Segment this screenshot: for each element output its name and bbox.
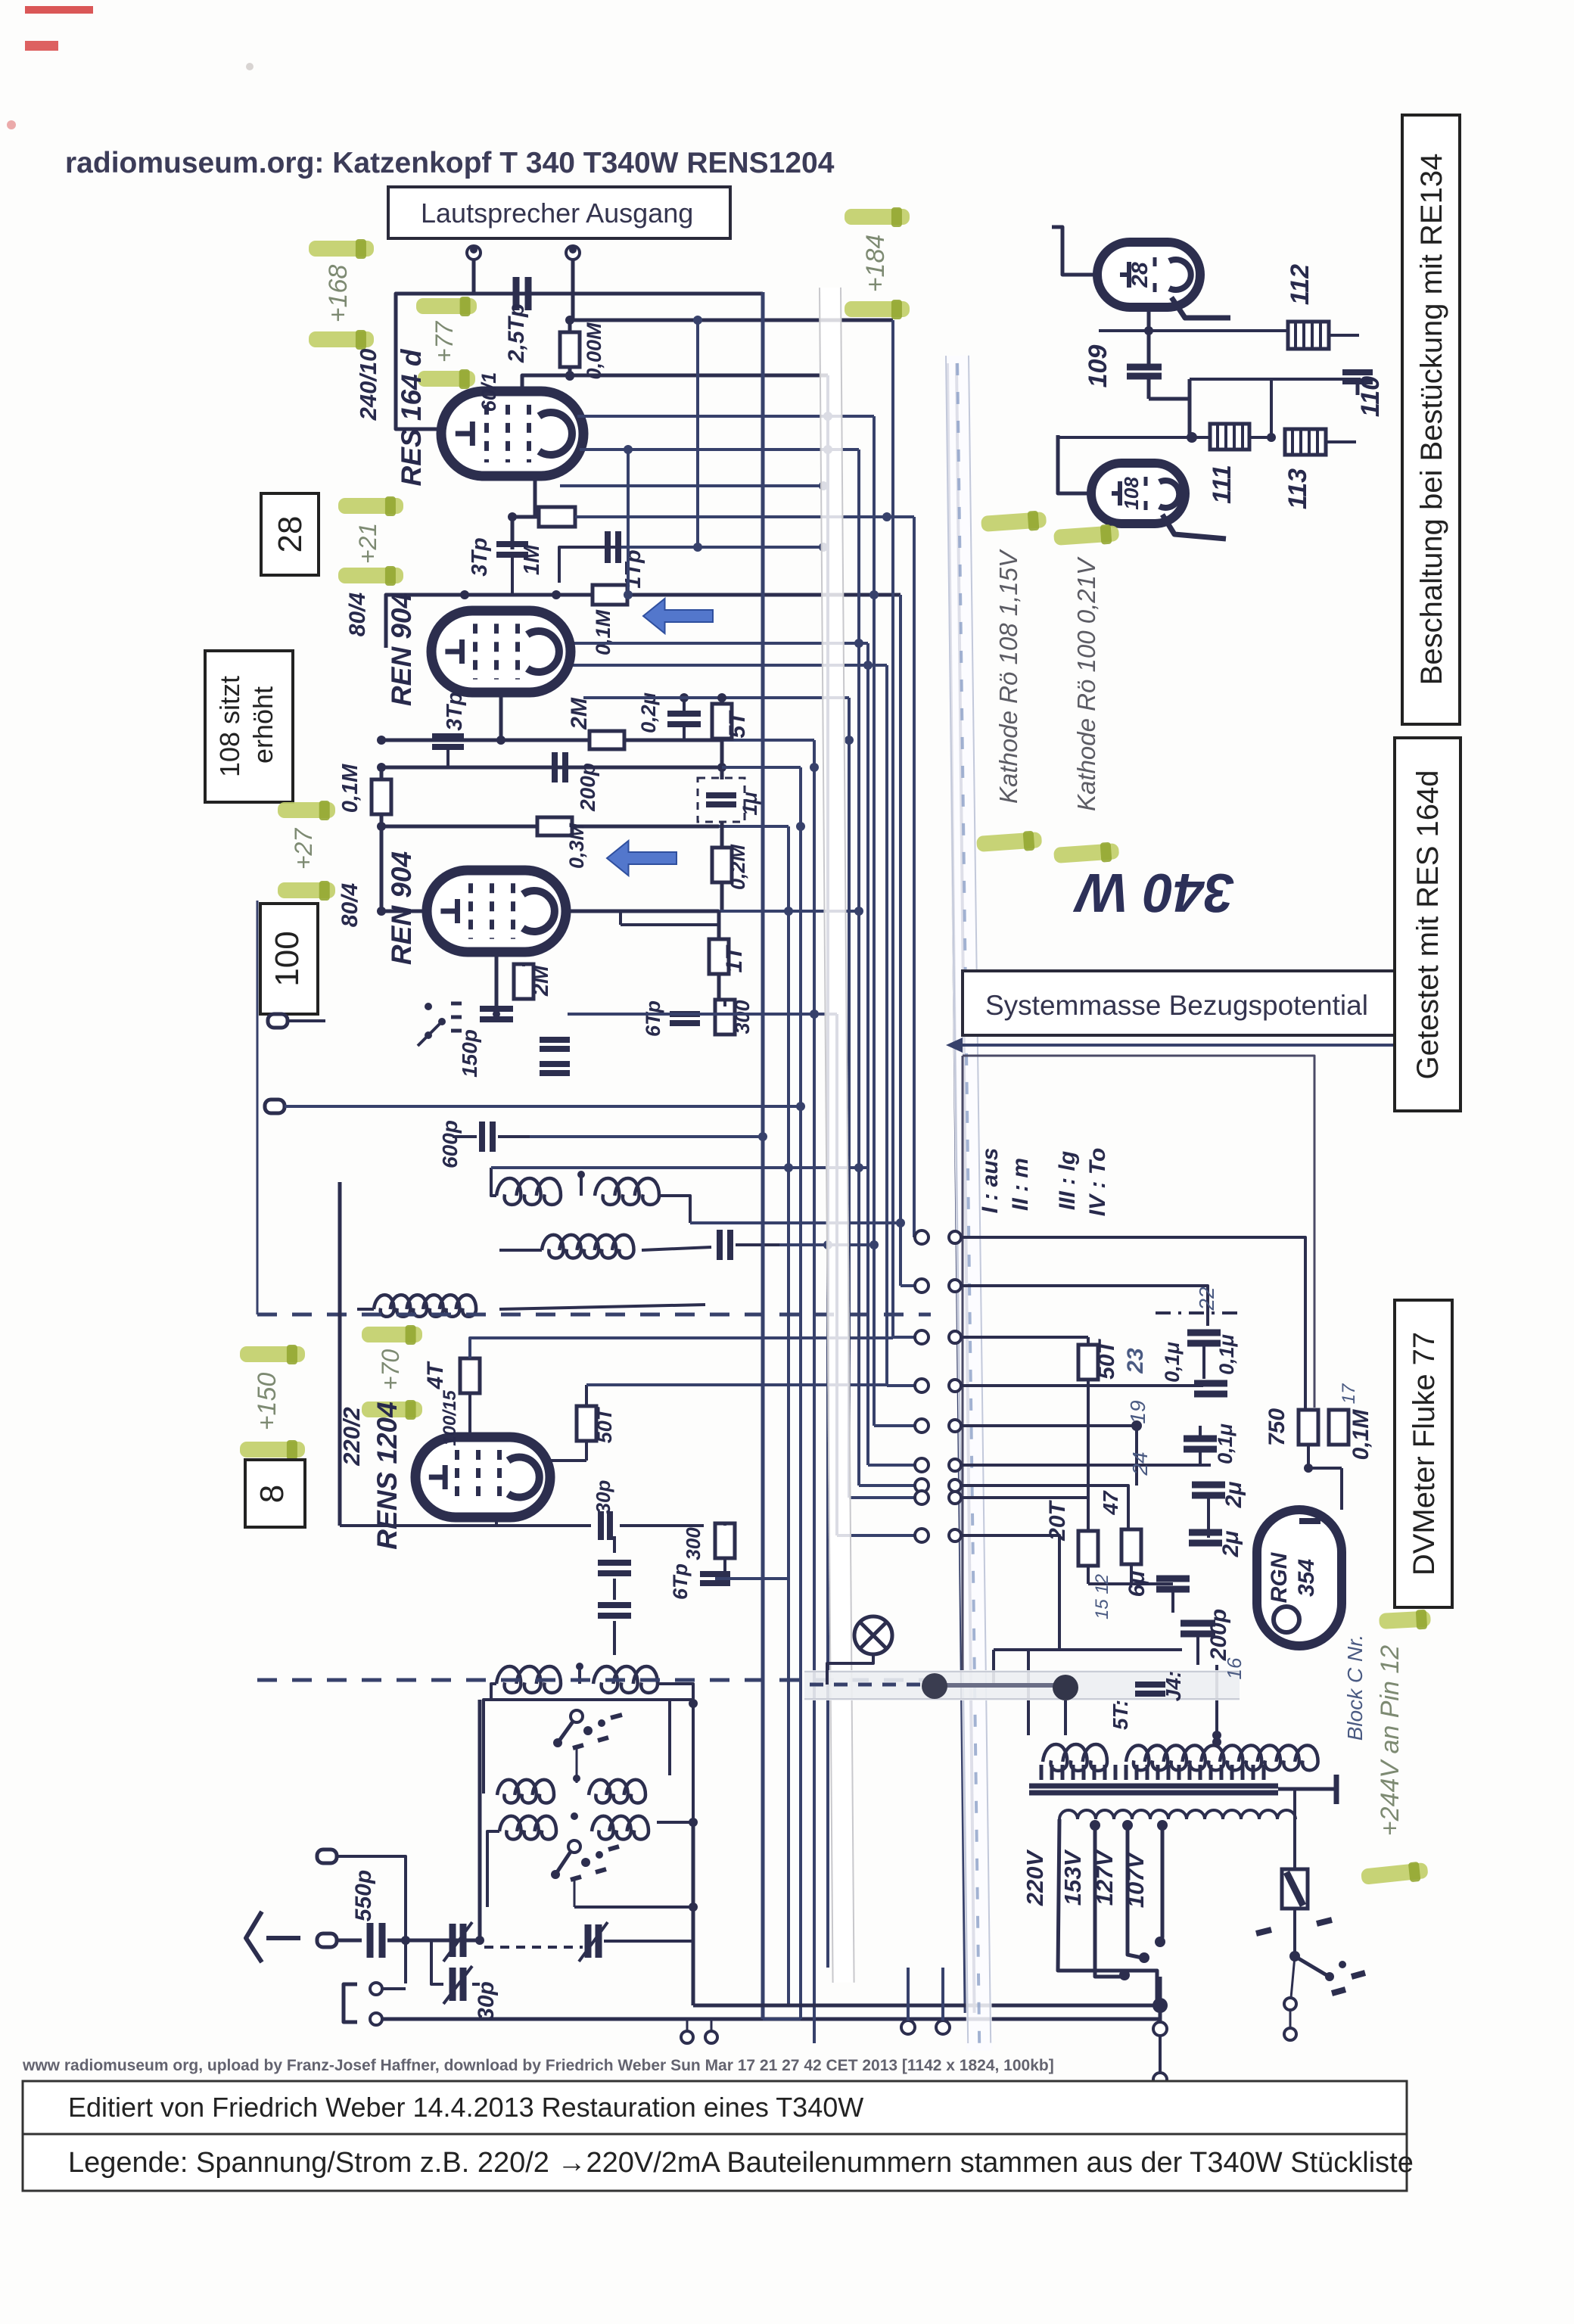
label 200p: [576, 763, 599, 812]
svg-text:+21: +21: [354, 523, 381, 564]
label J4: [1162, 1671, 1185, 1701]
wire y1830 stub: [795, 1383, 887, 1386]
label 15 12: [1092, 1574, 1112, 1619]
capacitor 02u: [667, 693, 701, 740]
svg-text:300: 300: [682, 1527, 705, 1560]
box DVMeter: [1395, 1300, 1452, 1607]
label 01u b: [1161, 1342, 1184, 1383]
label 000M: [583, 322, 605, 380]
wire re134 h1: [1099, 307, 1286, 335]
svg-text:+168: +168: [324, 265, 353, 323]
wire y723: [559, 543, 828, 583]
svg-text:2,5Tp: 2,5Tp: [504, 303, 529, 363]
capacitor stack a: [598, 1536, 631, 1573]
label Kathode 100: [1072, 556, 1100, 811]
svg-text:www radiomuseum org, upload by: www radiomuseum org, upload by Franz-Jos…: [22, 2057, 1054, 2074]
wire left drop: [377, 826, 386, 916]
svg-text:III : lg: III : lg: [1055, 1151, 1080, 1210]
capacitor 01u c: [1184, 1426, 1217, 1465]
svg-text:Kathode Rö 108 1,15V: Kathode Rö 108 1,15V: [994, 549, 1022, 804]
svg-text:3Tp: 3Tp: [443, 692, 467, 731]
terminal circ d: [370, 2013, 1160, 2025]
coil 113: [1285, 429, 1356, 455]
systemmasse rail: [947, 363, 975, 2013]
capacitor 2u b: [1189, 1532, 1222, 1543]
green mark DVMeter: [1379, 1609, 1431, 1632]
coil 112: [1288, 322, 1359, 349]
label 220V: [1022, 1849, 1048, 1906]
trimmer 30p b: [431, 1940, 480, 2004]
svg-text:113: 113: [1283, 468, 1312, 509]
wire y1768 stub: [795, 1336, 893, 1339]
svg-text:112: 112: [1286, 264, 1314, 305]
capacitor 600p: [453, 1122, 530, 1152]
terminal pill ant top: [317, 1850, 406, 1983]
svg-text:Legende: Spannung/Strom z.B. 2: Legende: Spannung/Strom z.B. 220/2 →220V…: [68, 2147, 1414, 2179]
box Editiert: [23, 2081, 1407, 2134]
resistor 300: [715, 1000, 735, 1034]
capacitor 6Tp: [670, 1014, 700, 1023]
label +150: [253, 1373, 282, 1431]
svg-text:19: 19: [1126, 1400, 1149, 1423]
svg-text:1M: 1M: [520, 544, 544, 575]
svg-text:Block C Nr.: Block C Nr.: [1343, 1635, 1367, 1741]
tube 28 RE134: [1097, 242, 1200, 307]
svg-text:4T: 4T: [423, 1361, 448, 1390]
resistor Q2M: [712, 822, 732, 910]
label 340W: [1072, 862, 1234, 922]
wire rail2: [386, 590, 901, 648]
wire re134 step: [1149, 379, 1361, 437]
svg-text:Getestet mit RES 164d: Getestet mit RES 164d: [1411, 770, 1445, 1079]
svg-text:50T: 50T: [1094, 1338, 1119, 1379]
wire rens right top: [550, 1385, 795, 1461]
switch sw2: [551, 1840, 619, 1907]
svg-text:100/15: 100/15: [440, 1390, 460, 1446]
label 600p: [438, 1120, 462, 1168]
wire tube bottom: [533, 476, 537, 517]
svg-text:17: 17: [1339, 1383, 1359, 1404]
tube REN904 no3: [427, 870, 566, 952]
horizontal strip: [804, 1670, 1240, 1700]
label 109: [1084, 345, 1112, 388]
resistor Q1M 17: [1329, 1410, 1348, 1445]
wire psu v1408: [1064, 1700, 1067, 1735]
wire coil row4 ends: [491, 1684, 693, 1700]
transformer primary big: [1126, 1738, 1318, 1770]
label 4T: [423, 1361, 448, 1390]
label +184: [861, 235, 890, 293]
capacitor 2u a: [1192, 1485, 1225, 1538]
label 2u b: [1218, 1531, 1243, 1558]
label 5T dash: [1109, 1700, 1132, 1730]
green mark +21 a: [338, 496, 403, 516]
switch dots a: [418, 1003, 462, 1046]
svg-text:I : aus: I : aus: [978, 1148, 1003, 1214]
scan gray speck: [7, 63, 254, 129]
tap 127V: [1122, 1820, 1149, 1963]
wire y922: [583, 693, 849, 702]
wire tube28 left: [1052, 227, 1101, 275]
label 80/4 t2: [345, 592, 370, 636]
capacitor 01u 22: [1187, 1333, 1221, 1379]
svg-text:200p: 200p: [1206, 1609, 1231, 1661]
resistor 4T: [460, 1358, 480, 1437]
wire tube108 anode: [1162, 515, 1226, 539]
svg-text:111: 111: [1208, 465, 1236, 504]
capacitor 3Tp out: [496, 544, 528, 595]
label RENS1204: [372, 1402, 403, 1549]
svg-text:0,1μ: 0,1μ: [1161, 1342, 1184, 1383]
wire y1543 to bus: [491, 1166, 868, 1169]
label +27: [290, 828, 317, 870]
wire y1645 to bus: [779, 1240, 879, 1249]
svg-text:0,1μ: 0,1μ: [1215, 1334, 1238, 1375]
resistor 50T rens: [577, 1385, 596, 1461]
fuse: [1282, 1789, 1308, 1937]
wire tube108 loop: [1058, 435, 1095, 493]
svg-text:107V: 107V: [1122, 1851, 1149, 1908]
resistor 300 rens: [715, 1523, 735, 1579]
label 2,5Tp: [504, 303, 529, 363]
tap 153V: [1090, 1820, 1130, 1980]
resistor 20T: [1078, 1531, 1098, 1584]
wire y879: [569, 664, 887, 667]
wire y1340 to bus: [493, 1010, 837, 1018]
label 01u 22: [1215, 1334, 1238, 1375]
svg-text:+150: +150: [253, 1373, 282, 1431]
coil row1: [496, 1171, 659, 1205]
label 3Tp no2: [443, 692, 467, 731]
svg-text:+244V an Pin 12: +244V an Pin 12: [1376, 1645, 1404, 1836]
resistor 5T: [712, 698, 732, 779]
tap 107V: [1155, 1820, 1168, 1947]
capacitor 30p rens: [496, 1511, 704, 1540]
green mark +27 a: [278, 801, 335, 820]
label 111: [1208, 465, 1236, 504]
label 300: [731, 1000, 754, 1034]
coil row5: [497, 1775, 645, 1803]
label 5T: [725, 710, 750, 739]
svg-text:80/4: 80/4: [338, 882, 362, 927]
wire 220V: [1058, 1819, 1157, 2005]
green mark +168 a: [309, 239, 374, 259]
label +168: [324, 265, 353, 323]
box Legende: [23, 2134, 1414, 2191]
wire hline B: [377, 763, 801, 772]
svg-text:DVMeter Fluke 77: DVMeter Fluke 77: [1408, 1332, 1441, 1576]
capacitor 6u: [1088, 1579, 1190, 1613]
svg-text:750: 750: [1264, 1408, 1289, 1446]
label REN904 no2: [386, 593, 417, 706]
systemmasse pointer: [946, 1038, 1399, 1053]
scan red edge mark 2: [25, 41, 58, 51]
wire grid down: [511, 517, 515, 549]
green mark kath108 top: [981, 510, 1047, 534]
wire tube2 bottom: [499, 692, 503, 740]
label 6Tp rens: [669, 1563, 692, 1600]
svg-text:15 12: 15 12: [1092, 1574, 1112, 1619]
label Block C: [1343, 1635, 1367, 1741]
terminal row wires: [961, 1237, 1305, 1650]
label 100/15: [440, 1390, 460, 1446]
coil 111: [1210, 424, 1249, 450]
vertical bus wires: [763, 292, 915, 2043]
tube RENS1204: [415, 1437, 550, 1517]
coil row2: [542, 1235, 634, 1258]
label 30p: [474, 1981, 499, 2021]
arrow blue 1: [643, 599, 713, 633]
svg-text:II : m: II : m: [1008, 1158, 1033, 1211]
wire row6 left: [487, 1831, 499, 1907]
svg-text:REN 904: REN 904: [386, 593, 417, 706]
svg-text:REN 904: REN 904: [386, 851, 417, 965]
svg-text:+77: +77: [431, 321, 458, 362]
svg-text:0,1M: 0,1M: [1348, 1409, 1373, 1461]
svg-text:Beschaltung bei Bestückung mit: Beschaltung bei Bestückung mit RE134: [1415, 154, 1448, 686]
svg-text:50T: 50T: [593, 1406, 616, 1443]
label +77: [431, 321, 458, 362]
wire box to bus: [484, 1700, 693, 1824]
svg-text:5T:: 5T:: [1109, 1700, 1132, 1730]
svg-text:150p: 150p: [458, 1029, 481, 1078]
svg-text:200p: 200p: [576, 763, 599, 812]
svg-text:109: 109: [1084, 345, 1112, 388]
label 107V: [1122, 1851, 1149, 1908]
svg-text:108: 108: [1120, 477, 1143, 510]
label 3Tp out: [468, 537, 492, 577]
svg-text:6Tp: 6Tp: [669, 1563, 692, 1600]
wire hline C: [377, 822, 789, 831]
capacitor 109: [1127, 331, 1162, 399]
label 22: [1195, 1286, 1218, 1311]
svg-text:600p: 600p: [438, 1120, 462, 1168]
box 100: [260, 904, 318, 1014]
svg-text:80/4: 80/4: [345, 592, 370, 636]
wire y1502 to bus: [530, 1135, 763, 1138]
label 200p psu: [1206, 1609, 1231, 1661]
label 50T rens: [593, 1406, 616, 1443]
svg-text:2μ: 2μ: [1221, 1482, 1246, 1509]
wire bus y423: [565, 316, 893, 325]
svg-text:127V: 127V: [1091, 1849, 1118, 1906]
svg-text:IV : To: IV : To: [1085, 1148, 1110, 1217]
svg-text:23: 23: [1123, 1348, 1148, 1374]
capacitor 1u dashed: [698, 778, 745, 822]
svg-text:110: 110: [1356, 376, 1385, 417]
capacitor 6Tp rens: [700, 1574, 730, 1583]
tap junction: [1153, 1977, 1168, 2086]
svg-text:354: 354: [1294, 1559, 1319, 1597]
coil row3: [374, 1295, 476, 1317]
label 0,1M top: [592, 609, 614, 655]
label 220/2: [338, 1407, 365, 1467]
svg-text:24: 24: [1128, 1451, 1152, 1476]
svg-text:0,2M: 0,2M: [726, 844, 749, 890]
title text radiomuseum: [65, 147, 835, 179]
wire vertical x922: [693, 316, 702, 552]
box Beschaltung: [1402, 115, 1460, 724]
trimmer 30p a: [443, 1922, 472, 1962]
svg-text:erhöht: erhöht: [247, 686, 278, 764]
label 01u c: [1214, 1423, 1236, 1464]
green mark kath108 bot: [976, 830, 1043, 854]
svg-text:Lautsprecher Ausgang: Lautsprecher Ausgang: [421, 198, 693, 229]
box 8: [245, 1460, 305, 1527]
green mark kath100 bot: [1053, 842, 1120, 866]
svg-text:Editiert von Friedrich Weber: Editiert von Friedrich Weber 14.4.2013 R…: [68, 2092, 863, 2123]
svg-text:3Tp: 3Tp: [468, 537, 492, 577]
terminal rows: [915, 1230, 961, 1542]
capacitor pair below: [540, 1040, 570, 1073]
capacitor 110: [1342, 372, 1373, 395]
svg-text:1μ: 1μ: [739, 792, 761, 815]
resistor 47: [1121, 1529, 1141, 1584]
svg-text:Systemmasse Bezugspotential: Systemmasse Bezugspotential: [985, 990, 1368, 1021]
label 50T: [1094, 1338, 1148, 1379]
vertical strip 1: [819, 288, 855, 1983]
svg-text:RGN: RGN: [1267, 1551, 1292, 1603]
capacitor 3Tp no2: [432, 736, 464, 767]
tube RES164d: [441, 391, 583, 476]
svg-text:108 sitzt: 108 sitzt: [214, 676, 245, 777]
label box Lautsprecher Ausgang: [388, 187, 730, 238]
svg-text:8: 8: [254, 1485, 291, 1503]
wire ant vert: [475, 1700, 484, 1945]
label 240/10: [355, 349, 381, 422]
label 1u: [739, 792, 761, 815]
wire y1462 to bus: [285, 1105, 801, 1108]
green mark +70 a: [362, 1325, 422, 1345]
svg-text:+70: +70: [377, 1349, 404, 1390]
wire tube28 anode: [1171, 297, 1230, 318]
bracket: [344, 1984, 357, 2022]
green mark +168 b: [309, 330, 374, 350]
coil box: [484, 1699, 698, 1794]
wire top rail: [396, 294, 763, 429]
green mark +184 a: [845, 207, 910, 227]
svg-text:6μ: 6μ: [1125, 1571, 1149, 1598]
terminal LS right: [566, 246, 580, 321]
strip dot 1: [922, 1673, 947, 1699]
svg-text:300: 300: [731, 1000, 754, 1034]
svg-text:340 W: 340 W: [1072, 862, 1234, 922]
trimmer cap right: [579, 1922, 693, 1962]
coil row4: [496, 1663, 658, 1693]
label 110: [1356, 376, 1385, 417]
wire sw2 bottom: [574, 1824, 698, 2005]
svg-text:+27: +27: [290, 828, 317, 870]
wire hline A: [377, 736, 814, 745]
label RES 164d: [396, 348, 427, 486]
terminal circles bottom center: [681, 2019, 717, 2043]
label 24: [1128, 1451, 1152, 1476]
wire psu top h2180: [994, 1650, 1182, 1735]
resistor Q1M: [372, 767, 391, 826]
wire coil row2 ends: [499, 1247, 711, 1250]
label 20T: [1045, 1499, 1070, 1541]
label 19: [1126, 1400, 1149, 1423]
label 127V: [1091, 1849, 1118, 1906]
label +244V: [1376, 1645, 1404, 1836]
dashed divider 2: [257, 1678, 931, 1682]
svg-text:radiomuseum.org: Katzenkopf T: radiomuseum.org: Katzenkopf T 340 T340W …: [65, 147, 835, 179]
resistor 0,1M top: [593, 585, 627, 605]
terminal pill ant: [317, 1934, 362, 1947]
resistor 000M: [560, 321, 580, 381]
svg-text:1T: 1T: [722, 944, 747, 973]
green mark +21 b: [338, 566, 403, 586]
power unit outline: [963, 1056, 1314, 1670]
transformer primary small: [1043, 1744, 1107, 1771]
label Q1M: [338, 764, 362, 813]
terminal left a: [268, 1014, 325, 1028]
transformer secondary: [1059, 1810, 1296, 1819]
svg-text:RENS 1204: RENS 1204: [372, 1402, 403, 1549]
wire vertical x830: [624, 445, 633, 599]
svg-text:30p: 30p: [474, 1981, 499, 2021]
svg-text:0,1μ: 0,1μ: [1214, 1423, 1236, 1464]
mains switch: [1256, 1920, 1365, 2040]
wire y2086 stub: [715, 1577, 789, 1580]
green mark +70 b: [362, 1400, 422, 1420]
terminal circ c: [370, 1983, 406, 1995]
label 02u: [637, 692, 660, 733]
resistor 2M a: [589, 731, 624, 749]
label 2u a: [1221, 1482, 1246, 1509]
wire anode top: [522, 371, 828, 391]
capacitor 550p: [370, 1923, 480, 1958]
terminal left b: [265, 1100, 325, 1113]
antenna arrow: [246, 1912, 300, 1962]
label 2M a: [567, 697, 592, 730]
wire y850 anode2: [568, 642, 868, 645]
wire y1616 to bus: [690, 1218, 905, 1227]
label 6Tp: [642, 1000, 664, 1037]
transformer laminations: [1029, 1765, 1278, 1793]
legend I-IV: [978, 1148, 1110, 1217]
wire coil row3 ends: [340, 1182, 705, 1309]
label Q1M 17: [1339, 1383, 1373, 1460]
svg-text:0,1M: 0,1M: [338, 764, 362, 813]
resistor 50T: [1078, 1337, 1098, 1386]
green mark kath100 top: [1053, 524, 1120, 548]
resistor 1M grid: [508, 507, 914, 527]
svg-text:Kathode Rö 100 0,21V: Kathode Rö 100 0,21V: [1072, 556, 1100, 811]
wire 19 node: [1088, 1386, 1142, 1498]
wire coil row1 ends: [491, 1168, 690, 1223]
box 28: [261, 493, 319, 575]
label 30p rens: [592, 1479, 614, 1514]
wire tube3 bottom: [495, 952, 499, 1014]
switch sw1: [553, 1710, 622, 1783]
terminal LS left: [467, 246, 481, 294]
tube RGN354: [1257, 1510, 1342, 1646]
green mark +77 b: [418, 369, 475, 389]
wire bus y550: [577, 415, 874, 418]
svg-text:RES 164 d: RES 164 d: [396, 348, 427, 486]
capacitor 01u b: [1194, 1383, 1227, 1394]
resistor 750: [1299, 1410, 1318, 1473]
dashed divider 1: [257, 1313, 931, 1317]
capacitor mid right: [720, 1230, 779, 1260]
resistor 0,3M: [537, 817, 572, 835]
box Systemmasse: [963, 971, 1397, 1035]
wire psu v1608: [1212, 1665, 1221, 1740]
wire hline D: [381, 907, 863, 916]
svg-text:1Tp: 1Tp: [621, 549, 645, 589]
capacitor 150p: [480, 1009, 513, 1019]
